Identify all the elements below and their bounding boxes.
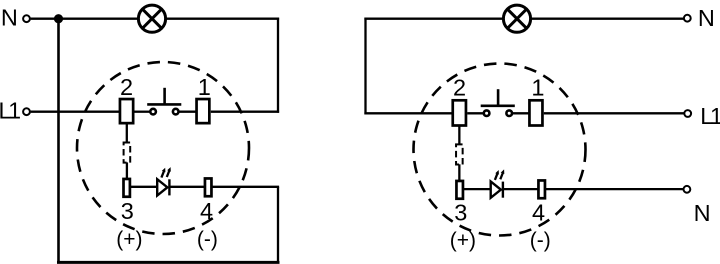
svg-text:(-): (-) xyxy=(197,228,218,251)
terminal circle L1 (right) xyxy=(684,110,691,117)
wire vertical corner to terminal 2 xyxy=(364,112,453,114)
pushbutton contact left xyxy=(150,109,156,115)
lamp X stroke 2 xyxy=(142,9,161,28)
terminal circle N top right xyxy=(684,15,691,22)
wire resistor to terminal 3 xyxy=(126,162,128,178)
wire terminal2 down to resistor (right) xyxy=(458,125,460,144)
LED arrow 2 (right) xyxy=(500,169,504,179)
terminal 1 rect (right) xyxy=(529,100,542,125)
pushbutton stem xyxy=(163,88,166,105)
svg-text:4: 4 xyxy=(532,200,545,226)
wire terminal3 to LED xyxy=(131,186,157,188)
pushbutton stem (right) xyxy=(497,89,500,106)
wire terminal1 to L1 terminal xyxy=(544,112,684,114)
wire top to lamp xyxy=(364,18,504,20)
wire terminal2 down to resistor xyxy=(126,123,128,143)
LED cathode bar (right) xyxy=(502,182,504,198)
wire terminal1 to right vertical xyxy=(211,111,279,113)
svg-text:3: 3 xyxy=(454,200,467,226)
dashed enclosure circle (left device) xyxy=(77,62,249,234)
svg-text:2: 2 xyxy=(453,75,466,101)
svg-text:N: N xyxy=(698,5,715,31)
bottom wire xyxy=(57,261,280,264)
wire lamp to N terminal xyxy=(531,18,684,20)
pushbutton bridge bar (right) xyxy=(481,105,515,108)
wire right vertical lower xyxy=(277,187,279,262)
svg-text:(+): (+) xyxy=(116,228,142,251)
wire LED to terminal 4 xyxy=(170,186,205,188)
wire contact to terminal1 xyxy=(178,111,196,113)
wire N to lamp xyxy=(31,18,139,20)
wire left vertical (right diagram) xyxy=(364,18,366,115)
terminal 1 rect xyxy=(197,99,210,123)
internal resistor (dashed rect) xyxy=(124,143,131,163)
lamp (right diagram) circle xyxy=(503,5,530,32)
pushbutton contact right xyxy=(173,109,179,115)
terminal 3 rect (right) xyxy=(456,181,463,199)
lamp X stroke 2 xyxy=(507,9,526,28)
terminal 3 rect xyxy=(124,179,130,197)
svg-text:(-): (-) xyxy=(530,229,551,252)
terminal 4 rect (right) xyxy=(538,180,545,198)
wire terminal2 to contact xyxy=(135,111,151,113)
pushbutton contact right (right diagram) xyxy=(506,110,512,116)
terminal circle L1 (left) xyxy=(23,108,30,115)
wire right vertical upper xyxy=(277,18,279,113)
LED cathode bar xyxy=(168,179,170,195)
svg-text:N: N xyxy=(694,200,711,226)
svg-text:3: 3 xyxy=(121,198,134,224)
svg-text:4: 4 xyxy=(200,198,213,224)
svg-text:1: 1 xyxy=(198,74,211,100)
wire terminal3 to LED (right) xyxy=(464,188,491,190)
LED arrow 1 (right) xyxy=(495,170,499,180)
svg-text:2: 2 xyxy=(120,74,133,100)
svg-text:(+): (+) xyxy=(450,229,476,252)
wire terminal2 to contact (right) xyxy=(467,112,484,114)
LED arrow 1 xyxy=(161,168,165,178)
wire lamp to right corner xyxy=(166,18,280,20)
wire LED to terminal 4 (right) xyxy=(503,188,538,190)
terminal 2 rect xyxy=(120,99,133,123)
LED triangle (right) xyxy=(491,182,501,198)
svg-text:L1: L1 xyxy=(0,97,20,123)
wire contact to terminal1 (right) xyxy=(513,112,530,114)
LED arrow 2 xyxy=(167,167,171,177)
lamp (left) circle xyxy=(138,5,165,32)
svg-text:1: 1 xyxy=(531,75,544,101)
wire resistor to terminal 3 (right) xyxy=(458,164,460,180)
dashed enclosure circle (right device) xyxy=(414,64,586,236)
wire terminal4 to right vertical xyxy=(212,186,279,188)
pushbutton bridge bar xyxy=(147,103,181,106)
lamp X stroke 1 xyxy=(142,9,161,28)
wire L1 to terminal 2 xyxy=(31,111,119,113)
wire terminal4 to N terminal (right) xyxy=(546,188,684,190)
svg-text:L1: L1 xyxy=(700,103,720,129)
pushbutton contact left (right diagram) xyxy=(484,110,490,116)
internal resistor dashed rect (right) xyxy=(456,144,463,164)
wire left vertical from junction to bottom xyxy=(57,19,60,263)
terminal circle N bottom right xyxy=(684,186,691,193)
terminal 4 rect xyxy=(205,178,212,196)
LED D1 triangle xyxy=(157,179,167,195)
terminal circle N (left) xyxy=(23,15,30,22)
lamp X stroke 1 xyxy=(507,9,526,28)
svg-text:N: N xyxy=(1,5,18,31)
terminal 2 rect (right) xyxy=(453,100,466,125)
junction dot xyxy=(54,14,63,23)
